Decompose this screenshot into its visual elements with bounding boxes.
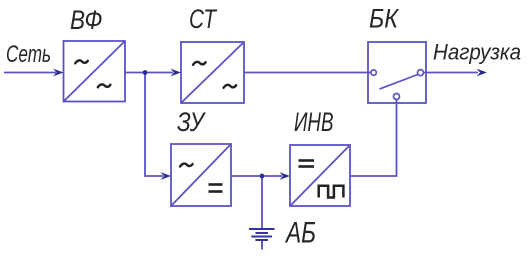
- svg-text:АБ: АБ: [284, 217, 316, 250]
- svg-text:ВФ: ВФ: [70, 5, 103, 35]
- svg-text:Нагрузка: Нагрузка: [433, 40, 521, 65]
- svg-text:Сеть: Сеть: [6, 41, 51, 68]
- svg-text:ЗУ: ЗУ: [177, 107, 206, 137]
- svg-text:БК: БК: [369, 3, 400, 33]
- svg-text:ИНВ: ИНВ: [294, 107, 334, 137]
- svg-text:СТ: СТ: [189, 4, 218, 34]
